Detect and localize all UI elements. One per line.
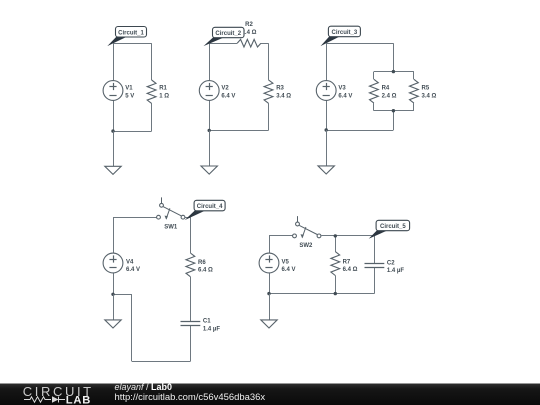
svg-text:6.4 V: 6.4 V bbox=[282, 267, 296, 273]
svg-text:6.4 Ω: 6.4 Ω bbox=[198, 267, 213, 273]
svg-text:V4: V4 bbox=[126, 260, 134, 266]
svg-text:V1: V1 bbox=[125, 86, 133, 92]
svg-text:1 Ω: 1 Ω bbox=[159, 93, 169, 99]
svg-text:Circuit_4: Circuit_4 bbox=[197, 204, 223, 210]
svg-text:R2: R2 bbox=[245, 22, 253, 28]
svg-text:R7: R7 bbox=[343, 259, 351, 265]
svg-text:V3: V3 bbox=[338, 86, 346, 92]
svg-text:Circuit_5: Circuit_5 bbox=[380, 224, 406, 230]
svg-text:2.4 Ω: 2.4 Ω bbox=[382, 93, 397, 99]
svg-text:C2: C2 bbox=[387, 260, 395, 266]
svg-text:R6: R6 bbox=[198, 260, 206, 266]
svg-text:elayanf / Lab0: elayanf / Lab0 bbox=[115, 382, 173, 392]
svg-text:6.4 V: 6.4 V bbox=[126, 267, 140, 273]
svg-text:1.4 µF: 1.4 µF bbox=[203, 326, 220, 332]
svg-text:SW2: SW2 bbox=[299, 243, 313, 249]
svg-text:5 V: 5 V bbox=[125, 93, 134, 99]
svg-text:R5: R5 bbox=[422, 86, 430, 92]
svg-text:6.4 V: 6.4 V bbox=[338, 93, 352, 99]
svg-text:R4: R4 bbox=[382, 86, 390, 92]
svg-text:LAB: LAB bbox=[66, 394, 91, 405]
svg-text:V5: V5 bbox=[282, 260, 290, 266]
svg-text:Circuit_2: Circuit_2 bbox=[215, 31, 241, 37]
svg-text:Circuit_3: Circuit_3 bbox=[332, 30, 358, 36]
svg-text:http://circuitlab.com/c56v456d: http://circuitlab.com/c56v456dba36x bbox=[115, 392, 266, 403]
svg-text:3.4 Ω: 3.4 Ω bbox=[422, 93, 437, 99]
svg-text:Circuit_1: Circuit_1 bbox=[118, 30, 144, 36]
svg-text:SW1: SW1 bbox=[164, 224, 178, 230]
svg-text:3.4 Ω: 3.4 Ω bbox=[276, 93, 291, 99]
svg-text:V2: V2 bbox=[221, 86, 229, 92]
svg-text:1.4 µF: 1.4 µF bbox=[387, 268, 404, 274]
svg-text:R1: R1 bbox=[159, 86, 167, 92]
svg-text:C1: C1 bbox=[203, 319, 211, 325]
svg-text:6.4 Ω: 6.4 Ω bbox=[343, 267, 358, 273]
svg-text:6.4 V: 6.4 V bbox=[221, 93, 235, 99]
svg-text:R3: R3 bbox=[276, 86, 284, 92]
